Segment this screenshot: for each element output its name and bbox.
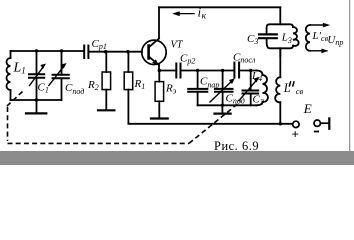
svg-text:+: + — [292, 126, 299, 141]
svg-text:C3: C3 — [247, 33, 258, 46]
svg-text:VT: VT — [171, 40, 184, 51]
svg-text:Cр1: Cр1 — [92, 38, 107, 51]
svg-text:L′св: L′св — [312, 30, 329, 43]
svg-text:C1: C1 — [38, 82, 49, 95]
svg-text:Uпр: Uпр — [327, 34, 343, 47]
svg-text:Rэ: Rэ — [165, 83, 177, 96]
svg-text:L1: L1 — [13, 61, 26, 76]
svg-text:Cпар: Cпар — [200, 76, 219, 90]
svg-text:C2: C2 — [253, 94, 264, 107]
svg-text:Cр2: Cр2 — [180, 53, 195, 66]
svg-text:L3: L3 — [281, 32, 292, 46]
svg-text:E: E — [303, 101, 312, 116]
svg-text:Cпод: Cпод — [65, 82, 84, 96]
svg-text:Cпосл: Cпосл — [233, 52, 256, 65]
svg-text:R1: R1 — [134, 78, 146, 91]
svg-text:R2: R2 — [87, 79, 99, 92]
